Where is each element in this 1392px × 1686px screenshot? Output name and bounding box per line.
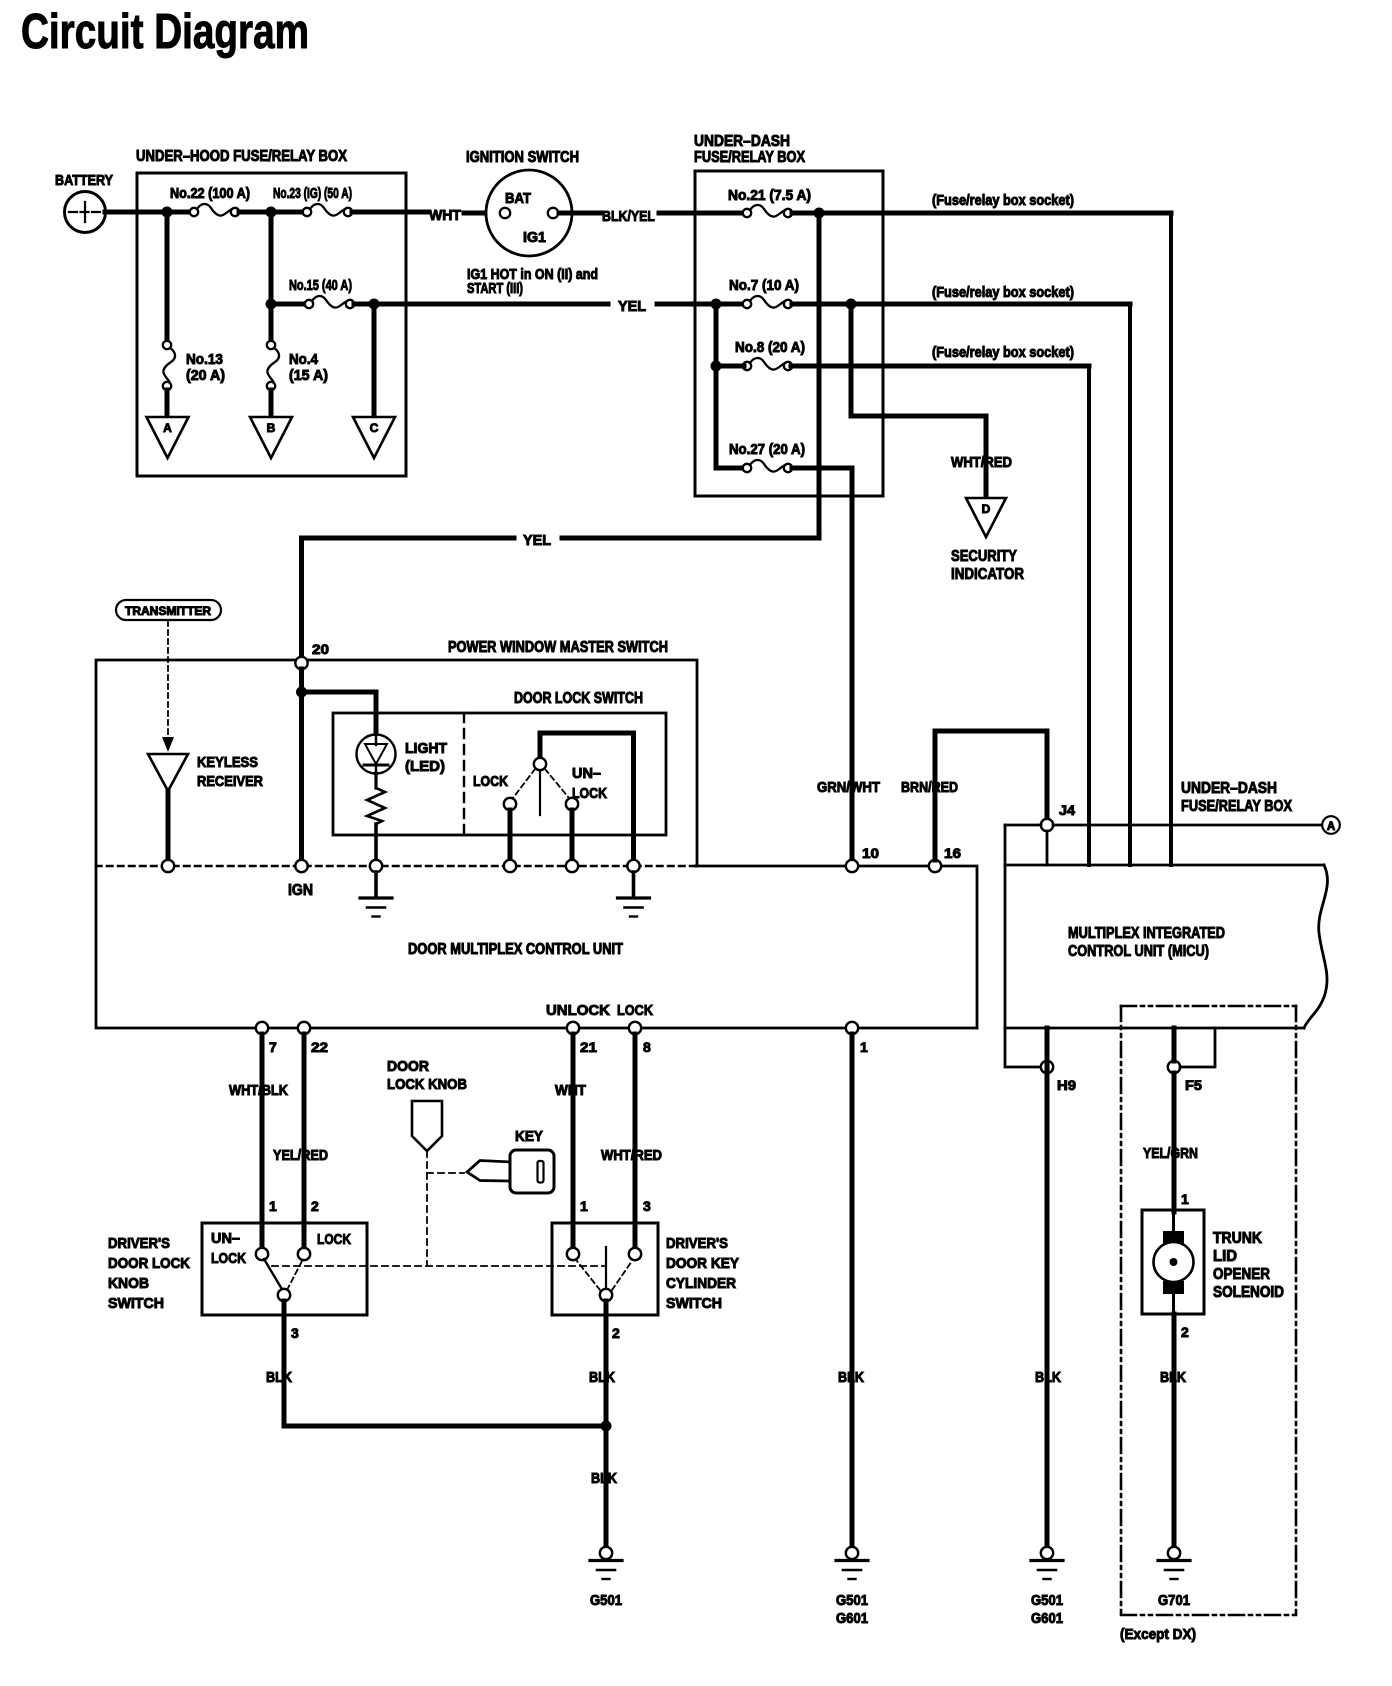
svg-text:G701: G701 xyxy=(1158,1593,1190,1609)
door lock switch common contact xyxy=(540,733,634,860)
wire No.4 branch down xyxy=(269,212,274,341)
svg-text:YEL/GRN: YEL/GRN xyxy=(1143,1145,1198,1162)
LOCK contact and wire xyxy=(504,798,516,810)
fuse No.8 (20 A) xyxy=(743,362,751,370)
junction node at fuse No.13 branch xyxy=(162,207,173,218)
wire fuse No.22 to No.23 xyxy=(239,210,303,215)
connector F5 xyxy=(1168,1061,1180,1073)
terminal 22 xyxy=(298,1022,310,1034)
svg-text:BATTERY: BATTERY xyxy=(55,172,113,189)
wire J4 line to ring terminal A xyxy=(1005,824,1041,827)
svg-text:No.4: No.4 xyxy=(289,352,318,368)
junction node at No.15/No.4 branch xyxy=(266,207,277,218)
driver's door lock knob switch box xyxy=(202,1223,367,1315)
fuse No.22 (100 A) xyxy=(190,208,198,216)
svg-text:D: D xyxy=(982,502,991,516)
connector A xyxy=(147,417,189,458)
terminal 20 xyxy=(295,657,307,669)
svg-text:A: A xyxy=(1327,821,1335,833)
svg-text:BLK/YEL: BLK/YEL xyxy=(602,208,655,225)
terminal 7 xyxy=(256,1022,268,1034)
wire trunk solenoid to ground G701 xyxy=(1172,1314,1177,1547)
svg-text:LIGHT: LIGHT xyxy=(405,740,447,757)
wire fuse No.13 to connector A xyxy=(165,390,170,418)
wire terminal 20 to LED branch junction xyxy=(299,669,304,860)
svg-text:POWER WINDOW MASTER SWITCH: POWER WINDOW MASTER SWITCH xyxy=(448,639,668,656)
ignition terminal IG1 xyxy=(548,208,558,218)
wire socket 3 down to MICU xyxy=(1087,366,1091,865)
key symbol xyxy=(467,1161,511,1182)
wire MICU to H9 to ground xyxy=(1045,1028,1050,1547)
svg-text:(LED): (LED) xyxy=(405,758,445,775)
svg-text:F5: F5 xyxy=(1185,1077,1202,1093)
junction node BLK wires xyxy=(601,1421,612,1432)
svg-text:DOOR KEY: DOOR KEY xyxy=(666,1255,739,1272)
knob switch contact 1 xyxy=(256,1248,268,1260)
svg-text:LOCK: LOCK xyxy=(473,773,508,790)
svg-text:IGN: IGN xyxy=(288,882,313,899)
svg-text:G501: G501 xyxy=(1031,1593,1063,1609)
svg-text:No.22 (100 A): No.22 (100 A) xyxy=(170,186,250,202)
svg-text:WHT: WHT xyxy=(555,1082,586,1099)
wire No.8 input stub xyxy=(716,364,744,369)
svg-text:G501: G501 xyxy=(836,1593,868,1609)
svg-text:C: C xyxy=(370,421,379,435)
svg-text:7: 7 xyxy=(269,1039,277,1055)
svg-text:DOOR LOCK: DOOR LOCK xyxy=(108,1255,190,1272)
svg-text:TRANSMITTER: TRANSMITTER xyxy=(125,606,212,618)
svg-text:No.27 (20 A): No.27 (20 A) xyxy=(729,442,805,458)
dashed link knob to key xyxy=(427,1172,464,1174)
dashed divider in door lock switch xyxy=(463,713,465,835)
switch arm xyxy=(539,770,541,815)
svg-text:YEL: YEL xyxy=(523,532,551,549)
svg-text:No.15 (40 A): No.15 (40 A) xyxy=(289,278,352,294)
door multiplex control unit box solid edges xyxy=(695,866,977,1028)
wire terminal 8 WHT/RED xyxy=(633,1034,638,1250)
svg-text:(15 A): (15 A) xyxy=(289,368,328,384)
junction node after No.21 xyxy=(814,208,825,219)
ground G701 trunk xyxy=(1168,1547,1180,1559)
ground G501 G601 DMCU xyxy=(846,1547,858,1559)
svg-text:YEL: YEL xyxy=(618,298,646,315)
svg-text:LOCK KNOB: LOCK KNOB xyxy=(387,1076,467,1093)
svg-text:UNLOCK: UNLOCK xyxy=(546,1002,610,1019)
svg-text:YEL/RED: YEL/RED xyxy=(273,1147,328,1164)
wire battery to fuse No.22 xyxy=(105,210,190,215)
svg-text:(Fuse/relay box socket): (Fuse/relay box socket) xyxy=(932,285,1074,301)
svg-text:UNDER–DASH: UNDER–DASH xyxy=(694,133,790,150)
key switch contact 3 xyxy=(629,1248,641,1260)
svg-text:2: 2 xyxy=(311,1198,319,1214)
svg-text:16: 16 xyxy=(944,845,961,861)
wire No.21 to socket xyxy=(792,211,1171,216)
dashed RF link transmitter to keyless receiver xyxy=(167,621,169,739)
wire No.27 input stub xyxy=(716,466,744,471)
svg-text:WHT/RED: WHT/RED xyxy=(951,454,1012,471)
wire terminal 22 YEL/RED xyxy=(302,1034,307,1250)
ground G501 xyxy=(600,1547,612,1559)
terminal 16 xyxy=(929,860,941,872)
wire key switch common to BLK junction xyxy=(604,1301,609,1547)
wire BLK/YEL to under-dash box xyxy=(659,211,744,216)
svg-text:IG1: IG1 xyxy=(523,230,546,246)
key switch dashed throw to 1 xyxy=(577,1261,600,1290)
wire fuse No.4 to connector B xyxy=(269,390,274,418)
wire knob switch common to BLK junction xyxy=(284,1301,606,1426)
svg-text:BLK: BLK xyxy=(838,1369,864,1386)
svg-text:START (III): START (III) xyxy=(467,281,523,297)
connector D security indicator xyxy=(966,498,1006,537)
svg-text:DRIVER'S: DRIVER'S xyxy=(666,1235,728,1252)
svg-text:FUSE/RELAY BOX: FUSE/RELAY BOX xyxy=(694,149,806,166)
wire LED to resistor xyxy=(374,773,377,788)
wire branch No.7 to No.8/No.27 xyxy=(714,304,719,468)
svg-text:2: 2 xyxy=(1181,1324,1189,1340)
key switch common contact xyxy=(600,1289,612,1301)
svg-text:BAT: BAT xyxy=(505,191,531,207)
dashed mechanical link knob down xyxy=(426,1151,428,1266)
driver's door key cylinder switch box xyxy=(552,1223,658,1315)
svg-text:(Except DX): (Except DX) xyxy=(1120,1626,1196,1643)
LED indicator light xyxy=(357,735,396,774)
wire socket 2 down to MICU xyxy=(1128,304,1132,865)
svg-text:BLK: BLK xyxy=(266,1369,292,1386)
svg-text:DRIVER'S: DRIVER'S xyxy=(108,1235,170,1252)
dashed mechanical link between switches xyxy=(272,1265,604,1267)
fuse No.13 (20 A) xyxy=(163,341,171,349)
terminal 21 xyxy=(567,1022,579,1034)
connector H9 xyxy=(1041,1061,1053,1073)
terminal 10 xyxy=(846,860,858,872)
terminal 1 xyxy=(846,1022,858,1034)
junction node after No.7 xyxy=(846,299,857,310)
svg-text:No.7 (10 A): No.7 (10 A) xyxy=(729,278,799,294)
connector B xyxy=(250,417,292,458)
junction node No.15 branch xyxy=(266,299,277,310)
terminal switch common on dashed line xyxy=(627,860,639,872)
svg-text:B: B xyxy=(267,421,276,435)
wire No.7 to socket xyxy=(792,302,1130,307)
solenoid motor symbol xyxy=(1163,1231,1184,1244)
connector C xyxy=(353,417,395,458)
wire left boundary J4 to H9 xyxy=(1005,825,1041,1067)
trunk lid opener solenoid box xyxy=(1142,1210,1204,1314)
svg-text:OPENER: OPENER xyxy=(1213,1266,1270,1283)
connector J4 xyxy=(1041,819,1053,831)
wire F5 stub right xyxy=(1180,1028,1215,1067)
svg-text:21: 21 xyxy=(580,1039,597,1055)
wire IG1 to BLK/YEL label xyxy=(559,211,600,216)
svg-text:GRN/WHT: GRN/WHT xyxy=(817,779,880,796)
dashed throw to LOCK contact xyxy=(513,769,535,798)
svg-text:SECURITY: SECURITY xyxy=(951,548,1018,565)
svg-text:DOOR MULTIPLEX CONTROL UNIT: DOOR MULTIPLEX CONTROL UNIT xyxy=(408,941,623,958)
knob switch contact 2 xyxy=(298,1248,310,1260)
ground G501 G601 MICU xyxy=(1041,1547,1053,1559)
wire terminal 1 BLK to ground xyxy=(850,1034,855,1547)
svg-text:UNDER–DASH: UNDER–DASH xyxy=(1181,780,1277,797)
svg-text:BLK: BLK xyxy=(589,1369,615,1386)
svg-text:KEY: KEY xyxy=(515,1128,543,1145)
svg-text:LOCK: LOCK xyxy=(617,1002,653,1019)
ground switch common internal xyxy=(632,872,636,897)
svg-text:2: 2 xyxy=(612,1325,620,1341)
fuse No.21 (7.5 A) xyxy=(743,209,751,217)
svg-text:INDICATOR: INDICATOR xyxy=(951,566,1024,583)
terminal 8 xyxy=(629,1022,641,1034)
svg-text:CYLINDER: CYLINDER xyxy=(666,1275,736,1292)
svg-text:BLK: BLK xyxy=(591,1470,617,1487)
power window master switch box outline xyxy=(96,660,697,866)
svg-text:G601: G601 xyxy=(836,1611,868,1627)
svg-text:UN–: UN– xyxy=(572,765,601,782)
terminal LED ground on dashed line xyxy=(370,860,382,872)
wire resistor to LED ground terminal xyxy=(374,824,378,860)
fuse No.27 (20 A) xyxy=(743,464,751,472)
wire YEL to under-dash box No.7 xyxy=(657,302,744,307)
under-dash fuse/relay box xyxy=(695,171,883,496)
svg-text:LID: LID xyxy=(1213,1248,1237,1265)
except DX boundary dash-dot box xyxy=(1121,1005,1296,1008)
svg-text:SWITCH: SWITCH xyxy=(666,1295,722,1312)
key switch arm xyxy=(605,1247,607,1288)
svg-text:DOOR LOCK SWITCH: DOOR LOCK SWITCH xyxy=(514,690,643,707)
svg-text:MULTIPLEX INTEGRATED: MULTIPLEX INTEGRATED xyxy=(1068,925,1225,942)
wire to LED xyxy=(302,692,377,736)
svg-text:SWITCH: SWITCH xyxy=(108,1295,164,1312)
svg-text:No.23 (IG) (50 A): No.23 (IG) (50 A) xyxy=(273,186,352,202)
svg-text:A: A xyxy=(163,421,172,435)
wire fuse No.15 to YEL label xyxy=(354,302,608,307)
svg-text:BLK: BLK xyxy=(1035,1369,1061,1386)
svg-text:3: 3 xyxy=(291,1325,299,1341)
door lock knob symbol xyxy=(412,1101,442,1151)
svg-text:No.13: No.13 xyxy=(186,352,223,368)
ground LED internal xyxy=(374,872,378,897)
knob switch dashed throw xyxy=(287,1261,302,1290)
svg-text:SOLENOID: SOLENOID xyxy=(1213,1284,1284,1301)
wire No.27 to GRN/WHT down xyxy=(792,468,852,860)
terminal keyless receiver on dashed line xyxy=(162,860,174,872)
svg-text:LOCK: LOCK xyxy=(317,1231,351,1248)
wire J4 stub into MICU xyxy=(1046,831,1049,865)
ignition switch body xyxy=(486,170,572,256)
fuse No.4 (15 A) xyxy=(267,341,275,349)
UNLOCK contact and wire xyxy=(566,798,578,810)
dashed throw to UNLOCK contact xyxy=(545,769,569,798)
svg-text:RECEIVER: RECEIVER xyxy=(197,773,263,790)
svg-text:LOCK: LOCK xyxy=(211,1250,246,1267)
svg-text:1: 1 xyxy=(580,1198,588,1214)
terminal IGN on dashed line xyxy=(295,860,307,872)
key switch contact 1 xyxy=(567,1248,579,1260)
svg-text:BLK: BLK xyxy=(1160,1369,1186,1386)
wire terminal 7 WHT/BLK xyxy=(260,1034,265,1250)
wire F5 to trunk solenoid YEL/GRN xyxy=(1172,1073,1177,1212)
svg-text:8: 8 xyxy=(643,1039,651,1055)
wire security indicator branch xyxy=(851,304,986,497)
battery xyxy=(65,192,106,233)
keyless receiver antenna xyxy=(148,754,188,791)
multiplex integrated control unit box xyxy=(1005,864,1324,867)
svg-text:G501: G501 xyxy=(590,1593,622,1609)
ignition terminal BAT xyxy=(500,208,510,218)
svg-text:BRN/RED: BRN/RED xyxy=(901,779,958,796)
svg-text:WHT/RED: WHT/RED xyxy=(601,1147,662,1164)
fuse No.7 (10 A) xyxy=(743,300,751,308)
svg-text:1: 1 xyxy=(269,1198,277,1214)
wire IGN feed: No.21 junction down, YEL across, down to terminal 20 xyxy=(562,213,819,538)
key switch dashed throw to 3 xyxy=(612,1261,632,1290)
svg-text:TRUNK: TRUNK xyxy=(1213,1230,1263,1247)
door multiplex control unit boundary dashed xyxy=(96,865,695,868)
transmitter pill xyxy=(116,600,221,620)
svg-text:10: 10 xyxy=(862,845,879,861)
junction node connector C branch xyxy=(369,299,380,310)
svg-text:G601: G601 xyxy=(1031,1611,1063,1627)
svg-text:CONTROL UNIT (MICU): CONTROL UNIT (MICU) xyxy=(1068,943,1209,960)
svg-text:J4: J4 xyxy=(1059,802,1075,818)
wire fuse No.23 to WHT label xyxy=(352,210,427,215)
svg-text:DOOR: DOOR xyxy=(387,1058,429,1075)
svg-text:(Fuse/relay box socket): (Fuse/relay box socket) xyxy=(932,345,1074,361)
wire terminal 21 WHT xyxy=(571,1034,576,1250)
terminal LOCK on dashed line xyxy=(504,860,516,872)
wire No.8 to socket xyxy=(791,364,1089,369)
ring terminal A to under-dash fuse/relay box xyxy=(1322,816,1340,834)
svg-text:WHT/BLK: WHT/BLK xyxy=(229,1082,288,1099)
svg-text:FUSE/RELAY BOX: FUSE/RELAY BOX xyxy=(1181,798,1293,815)
svg-text:(Fuse/relay box socket): (Fuse/relay box socket) xyxy=(932,193,1074,209)
wire No.15 row xyxy=(271,302,306,307)
wire MICU to F5 xyxy=(1172,1028,1177,1061)
resistor below LED xyxy=(367,788,385,824)
svg-text:UNDER–HOOD FUSE/RELAY BOX: UNDER–HOOD FUSE/RELAY BOX xyxy=(136,148,348,165)
wire BRN/RED terminal 16 to J4 xyxy=(935,731,1047,860)
wire socket 1 down to MICU xyxy=(1169,213,1173,865)
svg-text:(20 A): (20 A) xyxy=(186,368,225,384)
wire No.13 branch down xyxy=(165,212,170,341)
junction node LED branch xyxy=(296,687,307,698)
svg-text:UN–: UN– xyxy=(211,1230,240,1247)
door lock switch box xyxy=(333,713,666,835)
svg-text:No.8 (20 A): No.8 (20 A) xyxy=(735,340,805,356)
svg-text:1: 1 xyxy=(860,1039,868,1055)
fuse No.23 (IG) (50 A) xyxy=(303,208,311,216)
svg-text:H9: H9 xyxy=(1057,1077,1076,1093)
knob switch arm xyxy=(264,1259,283,1291)
knob switch common contact xyxy=(278,1289,290,1301)
terminal UNLOCK on dashed line xyxy=(566,860,578,872)
svg-text:KNOB: KNOB xyxy=(108,1275,149,1292)
wire connector C branch xyxy=(372,304,377,418)
svg-text:20: 20 xyxy=(312,641,329,657)
svg-text:IGNITION SWITCH: IGNITION SWITCH xyxy=(466,149,579,166)
junction node No.7 input xyxy=(711,299,722,310)
svg-text:No.21 (7.5 A): No.21 (7.5 A) xyxy=(728,188,811,204)
under-hood fuse/relay box xyxy=(137,173,406,476)
svg-text:22: 22 xyxy=(311,1039,328,1055)
svg-text:Circuit Diagram: Circuit Diagram xyxy=(21,5,309,59)
junction node No.8 input xyxy=(711,361,722,372)
svg-text:WHT: WHT xyxy=(429,207,461,224)
wire segment WHT to ignition switch xyxy=(464,211,499,216)
fuse No.15 (40 A) xyxy=(305,300,313,308)
svg-text:3: 3 xyxy=(643,1198,651,1214)
svg-text:KEYLESS: KEYLESS xyxy=(197,754,258,771)
svg-text:1: 1 xyxy=(1181,1191,1189,1207)
